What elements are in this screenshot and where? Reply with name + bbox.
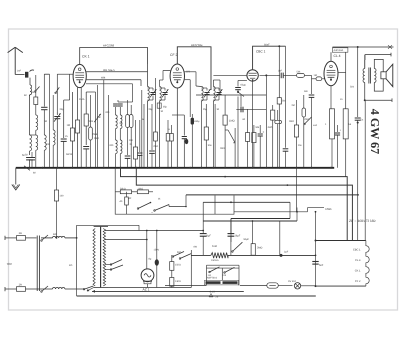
svg-text:100: 100 [60,195,65,198]
trafo tap arms [105,260,123,271]
resistor R9 [204,104,208,168]
trafo tap 2 [105,239,148,241]
heater label CL4 [355,259,361,262]
heater label CF2 [355,280,361,283]
wire link [30,134,36,136]
svg-text:16μF: 16μF [235,235,241,238]
svg-text:m/A: m/A [313,124,318,127]
tube CL4 [324,61,338,85]
wire link4 [86,92,95,100]
svg-text:50k: 50k [256,126,261,129]
svg-text:2n: 2n [340,98,343,101]
antenna [8,47,23,74]
enclosure bottom [77,295,316,297]
svg-text:NSF 50 Ω: NSF 50 Ω [207,277,217,280]
resistor R6 [125,100,131,168]
fuse pill [240,283,293,288]
anode wire CF2 [185,72,196,86]
svg-text:CF 2: CF 2 [355,280,361,283]
resistor R13 [271,105,275,168]
resistor R10 [246,109,250,168]
svg-text:1n: 1n [168,128,171,131]
ground symbol [12,168,20,190]
svg-text:10kΩ: 10kΩ [138,187,144,190]
label smudges lower [129,197,250,277]
svg-text:DW1: DW1 [326,207,333,211]
svg-text:8μF: 8μF [207,235,212,238]
divider box [207,265,240,285]
switch S2 [304,117,312,125]
svg-text:+: + [263,130,265,134]
speaker cone [381,64,393,86]
svg-text:981 59a-5: 981 59a-5 [103,69,115,72]
heater box bottom [315,285,366,287]
potentiometer P1 [220,130,235,150]
tube CBC1 [247,70,258,81]
svg-text:25: 25 [65,135,68,138]
wire cathode CK1 [75,88,79,168]
antenna plug [15,70,34,78]
svg-text:220: 220 [223,274,227,277]
wire x144 [143,104,145,168]
svg-text:50μ: 50μ [196,120,201,123]
svg-text:150V: 150V [154,249,160,252]
IF1 coil a [148,64,150,168]
svg-text:374A: 374A [79,98,85,101]
resistor R2 [83,92,93,168]
svg-text:Δ2: Δ2 [129,197,133,200]
wire column x95 [95,100,97,168]
svg-text:60: 60 [24,94,27,97]
rail A [203,201,290,233]
wire IF1 to grid CF2 [160,71,171,81]
label AFC268 [103,44,114,48]
RC coupling [276,70,311,79]
svg-text:AFC/Tole: AFC/Tole [191,43,203,47]
resistor R16 [343,73,352,177]
svg-text:50n: 50n [304,90,309,93]
return line [92,290,244,293]
IF2 trimmer a [201,88,210,100]
wire f1 [26,237,37,239]
coil L3 [41,74,50,168]
enclosure left [76,225,78,296]
resistor R12 [277,75,285,167]
AVC loop CK1 [80,48,148,65]
cap 5nF [312,262,323,267]
grid wire CBC1 [213,74,246,76]
g2 CF2 [185,80,200,168]
enclosure top [77,224,139,226]
mains switch [37,235,48,292]
svg-text:1A: 1A [19,283,22,286]
choke L6 [26,287,85,289]
cap C6 [236,95,266,112]
switch S5 [232,242,243,252]
label speaker [350,86,355,89]
svg-text:2μF: 2μF [284,251,289,254]
svg-text:5n: 5n [361,119,364,122]
wire column x53 [55,74,60,112]
switch S3 [137,202,151,210]
anode wire CL4 [338,52,346,72]
AVC loop CF2 [177,47,211,90]
choke L5 [41,233,77,238]
svg-text:000: 000 [110,144,115,147]
svg-text:70V: 70V [7,262,12,266]
wire x358 down [357,194,359,196]
resistor R15 [289,100,299,168]
svg-text:1: 1 [325,123,327,126]
svg-text:2MΩ: 2MΩ [257,247,262,250]
svg-text:4HC/4HA: 4HC/4HA [334,49,344,52]
svg-text:50n: 50n [208,144,213,147]
bus entry cap [24,152,36,175]
svg-text:AZ 1: AZ 1 [143,288,150,292]
wire link3 [57,74,69,100]
label CF2 [170,53,177,57]
IF2 trimmer b [213,88,222,100]
resistor 10k [132,187,154,193]
svg-text:5M: 5M [282,100,285,103]
chassis bus [16,167,334,169]
mains to trafo switch [83,286,93,290]
svg-text:1MΩ: 1MΩ [94,137,99,140]
label KY [187,70,191,73]
tap switch A [172,252,191,260]
heater bus 2 [136,168,352,241]
svg-text:2nF: 2nF [278,70,283,73]
label AZ1 [143,288,150,292]
svg-text:0W15: 0W15 [66,153,73,156]
svg-text:50k: 50k [297,70,302,73]
svg-text:5nF: 5nF [319,264,324,267]
wire column x63 [61,100,69,168]
grid lead CBC1 [235,81,247,168]
tube CK1 [73,64,86,87]
svg-text:50μF: 50μF [244,238,250,241]
coil L4 [94,85,101,168]
label smudges upper [32,91,318,156]
wire x297 down [296,168,298,212]
wire antenna to coil [29,78,31,85]
svg-text:30: 30 [45,120,48,123]
tube CF2 [170,64,184,88]
IF2 coil b [213,80,215,168]
label 4 GW 67 [368,109,382,154]
cathode CF2 [172,88,188,168]
trimmer cap CV1 [54,112,61,168]
anode out CBC1 [252,81,254,167]
svg-text:110: 110 [208,274,212,277]
AZ1 bottom bus [108,287,165,289]
switchbox feed [114,168,116,192]
svg-text:CK 1: CK 1 [355,270,361,273]
svg-text:ZF = 468/473 kHz: ZF = 468/473 kHz [349,219,376,223]
grid network CL4 [312,74,326,81]
resistor 50k [115,187,131,193]
svg-text:600: 600 [53,233,58,236]
svg-text:CBC 1: CBC 1 [353,249,361,252]
divider bars [205,280,239,285]
DW1 wire [234,207,332,213]
cathode CL4 [330,86,332,109]
wire x285 [283,46,289,168]
svg-text:60: 60 [243,118,246,121]
svg-text:60: 60 [33,172,36,175]
svg-text:1M: 1M [67,124,70,127]
svg-text:25p: 25p [149,108,154,111]
speaker return line [365,53,391,60]
label CL4 [334,54,341,58]
svg-text:50Ω: 50Ω [177,251,182,254]
wire column x50 [53,95,55,168]
svg-text:1MΩ: 1MΩ [229,120,235,123]
svg-text:30: 30 [161,110,164,113]
svg-text:504: 504 [350,86,355,89]
label divider [207,277,219,299]
svg-text:AFC/268: AFC/268 [103,44,114,48]
wire x140 [137,90,142,168]
pill R3 [89,95,98,168]
grid wire CK1 left [70,73,74,75]
speaker feed line [333,45,394,49]
svg-text:0W6: 0W6 [92,133,98,136]
heater box right [366,241,369,287]
svg-text:0W1: 0W1 [154,145,159,148]
svg-text:50: 50 [25,154,28,157]
wire grid CK1 [80,88,82,168]
label 70V [7,262,73,267]
switch S4 [151,205,186,215]
svg-text:494: 494 [101,77,106,80]
coil L2 [30,135,32,155]
wire x191 [165,250,207,288]
top-cap CBC1 [253,45,286,69]
svg-text:5k: 5k [349,123,352,126]
svg-text:0W2: 0W2 [289,120,295,123]
resistor 2M [251,244,262,256]
svg-text:0W1: 0W1 [268,126,273,129]
svg-text:CL 4: CL 4 [355,259,361,262]
wire x3038 [302,95,306,168]
label CBC1 [256,43,270,53]
cap C9 [355,47,364,241]
resistor R11 [252,125,256,168]
svg-text:0W: 0W [194,246,198,249]
electrolytic C7 [258,125,265,168]
feed AZ1 [146,231,148,269]
svg-text:CK 1: CK 1 [82,55,90,59]
svg-text:000: 000 [106,111,111,114]
coil L1 [24,85,32,135]
heater feed wire [315,211,317,286]
wire sb right [185,195,187,207]
label 62pF [241,84,247,87]
svg-text:2nF: 2nF [97,116,102,119]
heater bus 3 [186,176,358,195]
wire x108 [104,80,109,168]
switchbox outline [115,192,234,214]
heater label CK1 [355,270,361,273]
mains terminal 1 [5,236,17,240]
filter cap dark [149,230,159,288]
label ZF [349,219,376,223]
svg-text:10n: 10n [298,144,303,147]
svg-text:150mA: 150mA [211,259,219,262]
coupling line [260,74,277,76]
svg-text:8μ: 8μ [149,258,152,261]
resistor small [120,192,129,214]
speaker bottom wire [364,98,392,102]
AZ1 out wire [165,287,191,289]
cap C5 [149,103,167,168]
top-cap wire CK1 [80,61,82,65]
svg-text:2k: 2k [130,143,133,146]
svg-text:62μμ: 62μμ [241,84,247,87]
IF1 coil b [160,80,162,168]
IF2 coil a [196,86,203,168]
tube AZ1 [141,269,154,284]
wire x2762 [278,46,280,75]
pill R14 [275,110,282,168]
g2 wire CK1 [86,77,141,102]
wire IF2 out [196,80,266,95]
svg-text:4 GW 67: 4 GW 67 [368,109,382,154]
svg-text:2nF: 2nF [17,70,22,73]
wire [29,95,32,96]
wire x127 [129,105,133,168]
wire x2351 [234,128,236,168]
trafo tap top [105,225,204,231]
label CK1 [82,55,90,59]
speaker primary coil [363,55,365,101]
wire column [34,75,40,168]
rail C [203,208,297,256]
resistor 1M [223,95,235,168]
label 4HC4HA box [332,48,348,52]
divider arms [209,267,235,274]
wire link2 [49,74,51,168]
wire x266 [265,75,267,167]
svg-text:Δ0: Δ0 [120,200,124,203]
trafo left winding [93,229,95,287]
label AFC-Tole [191,43,203,47]
top-cap CL4 [330,52,332,61]
wire x171 [166,120,173,168]
svg-text:CBC 1: CBC 1 [256,49,266,53]
svg-text:SV 504: SV 504 [288,280,297,283]
svg-text:2M: 2M [292,104,295,107]
heater label CBC1 [353,249,361,252]
electrolytic C8 [335,125,342,168]
svg-text:25p: 25p [163,106,168,109]
IF1 trimmer a [148,88,157,100]
wire sb mid [214,196,216,215]
dropper R17 [54,168,64,239]
svg-text:KO: KO [69,264,73,267]
trafo plug [87,288,94,292]
svg-text:30: 30 [217,108,220,111]
pill R5 [118,104,123,168]
label 2nF right [340,98,343,101]
AZ1 bottom lead [147,284,149,288]
lamp wire [301,285,316,287]
svg-text:Feld: Feld [212,245,217,248]
dial lamp [288,280,301,289]
electrolytic 16uF [228,219,241,256]
cap C10 [304,75,314,167]
svg-text:01: 01 [158,198,161,201]
svg-text:~: ~ [151,211,153,215]
svg-text:CL 4: CL 4 [334,54,341,58]
heater resistor A [170,255,181,288]
resistor R8 [154,78,158,168]
IF1 trimmer b [160,88,169,100]
anode wire CK1 [86,69,147,72]
svg-text:130Ω: 130Ω [175,280,181,283]
svg-text:100: 100 [129,139,134,142]
wire x3652 [364,100,366,240]
fuse F2 [17,283,26,291]
svg-text:1M: 1M [314,74,317,77]
resistor Rk CL4 [325,109,335,168]
rail B [231,219,290,243]
resistor R4 [113,104,118,168]
resistor R7 [130,120,138,168]
svg-text:CF 2: CF 2 [170,53,177,57]
mains terminal 2 [5,287,17,291]
trafo right winding [103,229,105,287]
heater bus 1 [121,168,348,241]
svg-text:0W1: 0W1 [220,147,226,150]
svg-text:25p: 25p [203,108,208,111]
fuse F1 [17,232,26,240]
svg-text:50kΩ: 50kΩ [120,187,126,190]
electrolytic 8uF [200,234,212,256]
svg-text:150Ω: 150Ω [175,264,181,267]
speaker core [369,68,371,84]
resistor R1 [67,92,75,168]
bus junction dots [29,167,333,169]
svg-text:1A: 1A [19,232,22,235]
label 150V [154,249,160,252]
speaker secondary [374,59,383,91]
field coil [191,245,315,262]
wire x215 [214,104,216,168]
svg-text:0W3: 0W3 [305,118,310,121]
svg-text:+: + [340,128,342,132]
trafo core [94,227,108,288]
heater box top [315,240,366,242]
capacitor C1 [22,154,33,168]
